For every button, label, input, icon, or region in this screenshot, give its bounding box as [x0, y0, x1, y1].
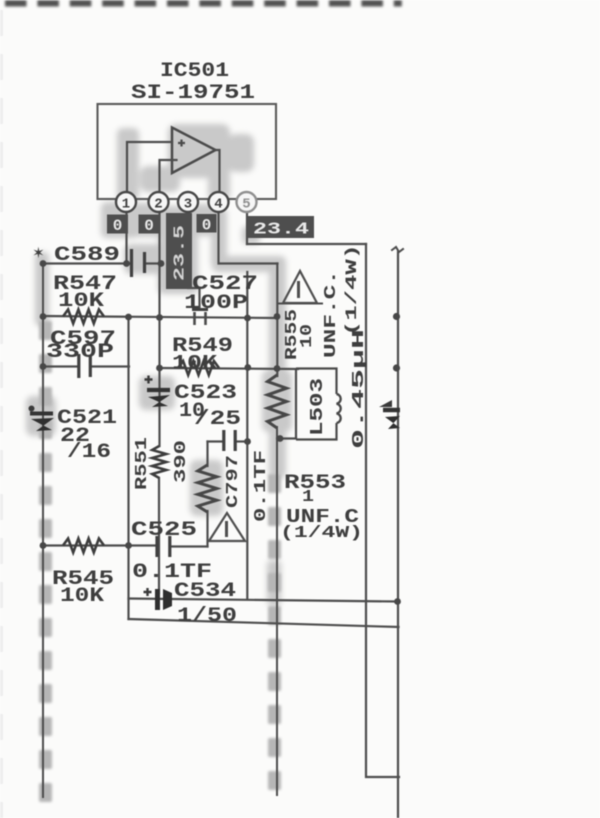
- capacitor C534 1/50 electrolytic: [144, 588, 152, 596]
- wire pin1 down: [125, 212, 127, 263]
- svg-text:10K: 10K: [172, 353, 217, 376]
- pin 1 of IC501: [116, 192, 136, 212]
- capacitor C589: [132, 249, 145, 277]
- junction node pin1 tap: [123, 260, 130, 267]
- svg-text:3: 3: [184, 197, 192, 213]
- rail node-B horizontal right part: [160, 368, 299, 369]
- svg-text:C525: C525: [131, 519, 197, 542]
- junction node rail-A x247: [244, 315, 251, 322]
- resistor R553 1: [198, 465, 217, 512]
- tick top of far right rail: [392, 247, 403, 252]
- capacitor electrolytic on far right rail: [379, 400, 392, 407]
- voltage box 0 pin4: [197, 214, 217, 233]
- shield dashed boundary right: [268, 474, 281, 790]
- junction node rail-B right: [274, 365, 281, 372]
- junction node rail-B x159: [156, 365, 163, 372]
- top border dashed line: [5, 0, 402, 7]
- junction node y546 x128: [125, 542, 132, 549]
- IC501 outline box: [98, 104, 277, 199]
- svg-text:1/50: 1/50: [177, 605, 237, 628]
- wire pin3 down: [188, 212, 200, 309]
- svg-text:(1/4W): (1/4W): [280, 524, 363, 543]
- svg-text:390: 390: [172, 440, 191, 483]
- svg-text:0.1TF: 0.1TF: [252, 450, 271, 522]
- svg-text:C797: C797: [224, 455, 243, 508]
- wire node column x277: [276, 264, 278, 377]
- wire bottom horizontal y625: [129, 619, 399, 627]
- resistor R545 10K: [63, 539, 104, 553]
- wire pin4 staircase: [219, 212, 278, 264]
- svg-text:4: 4: [214, 197, 222, 213]
- svg-text:R551: R551: [133, 437, 152, 490]
- wire pin5 down behind box: [246, 212, 248, 244]
- svg-text:/16: /16: [67, 441, 111, 464]
- junction node y600 right end: [394, 598, 401, 605]
- svg-text:0: 0: [202, 217, 212, 235]
- junction node rail-A right: [274, 313, 281, 320]
- pin 4 of IC501: [209, 192, 229, 212]
- svg-text:1: 1: [122, 197, 130, 213]
- wire far right rail: [397, 252, 399, 818]
- wire 23.4 feed to right rail: [247, 243, 366, 245]
- voltage box 0 pin2: [139, 215, 160, 234]
- svg-text:0: 0: [113, 217, 123, 235]
- junction node rail-B left: [40, 363, 47, 370]
- junction node rail-A x128: [125, 314, 132, 321]
- wire R545/C525 horizontal y546: [43, 544, 155, 546]
- svg-text:2: 2: [154, 197, 162, 213]
- svg-text:10K: 10K: [60, 585, 104, 608]
- junction node rail-A x159: [156, 314, 163, 321]
- svg-text:R553: R553: [284, 472, 346, 495]
- pin 3 of IC501: [178, 192, 198, 212]
- wire C589 horizontal: [43, 262, 130, 264]
- op-amp U1 (IC501 internal amplifier): [172, 128, 216, 174]
- svg-text:0: 0: [144, 217, 154, 235]
- wire bracket x128.5 vertical: [127, 317, 129, 619]
- wire pin2 down long vertical: [158, 212, 160, 446]
- wire pin2 to op-amp input: [160, 160, 177, 192]
- svg-text:SI-19751: SI-19751: [131, 82, 255, 105]
- rail node-B horizontal left part with C597: [43, 365, 77, 367]
- svg-text:10K: 10K: [58, 290, 104, 313]
- safety triangle mark 1 lower: [209, 513, 245, 541]
- junction node rail-A left: [40, 313, 47, 320]
- svg-text:1: 1: [302, 488, 314, 507]
- svg-text:100P: 100P: [184, 292, 248, 315]
- voltage box 23.5 pin3: [166, 213, 192, 289]
- capacitor C525 0.1TF: [157, 536, 170, 557]
- svg-text:/25: /25: [194, 408, 241, 431]
- safety triangle mark 1 upper: [283, 271, 317, 303]
- svg-text:330P: 330P: [46, 341, 114, 364]
- svg-text:✶: ✶: [33, 244, 44, 264]
- pin 5 of IC501: [237, 192, 257, 212]
- resistor R547 10K: [63, 310, 104, 324]
- svg-text:IC501: IC501: [160, 60, 229, 83]
- highlight marker blobs: [26, 124, 292, 606]
- capacitor C797 0.1TF: [224, 430, 235, 451]
- resistor R549 10K: [178, 361, 219, 375]
- rail node-A horizontal y317: [43, 316, 277, 318]
- junction node C589 right: [158, 260, 165, 267]
- svg-text:23.4: 23.4: [253, 221, 309, 240]
- junction node L503 bottom: [277, 435, 284, 442]
- page edge dashes: [0, 10, 3, 818]
- junction node C589 left: [40, 260, 47, 267]
- junction node rail-B x247: [244, 364, 251, 371]
- junction ticks on far right rail: [393, 313, 400, 320]
- wire pin1 to op-amp input: [127, 142, 172, 192]
- wire C534 horizontal y600: [129, 599, 398, 602]
- svg-text:23.5: 23.5: [173, 225, 189, 281]
- capacitor C523 10/25 electrolytic: [145, 376, 153, 384]
- voltage box 23.4 pin5 net: [248, 216, 314, 238]
- wire x247.5 vertical: [246, 272, 248, 599]
- resistor R551 390: [152, 446, 166, 478]
- capacitor C521 22/16 electrolytic: [29, 406, 35, 412]
- resistor R555 10: [268, 375, 287, 428]
- wire C797 horizontal: [208, 440, 223, 442]
- inductor L503 0.45uH: [296, 369, 337, 440]
- junction node C797 right: [244, 438, 251, 445]
- svg-text:10: 10: [298, 324, 317, 348]
- wire left vertical x43: [42, 264, 44, 798]
- capacitor C527 100P: [192, 308, 208, 311]
- junction node y546 left: [40, 542, 47, 549]
- wire L503 bottom connection: [277, 437, 296, 439]
- wire right rail down and step: [366, 244, 399, 777]
- capacitor C597 330P: [79, 354, 91, 378]
- wire R553 column: [206, 511, 208, 547]
- svg-text:L503: L503: [308, 378, 328, 436]
- voltage box 0 pin1: [107, 215, 128, 234]
- svg-text:C534: C534: [174, 580, 236, 603]
- wire op-amp output to pin 4: [215, 150, 220, 192]
- pin 2 of IC501: [149, 192, 169, 212]
- svg-text:C589: C589: [54, 244, 120, 267]
- svg-text:5: 5: [242, 197, 250, 213]
- shield dashed boundary left: [39, 321, 52, 802]
- svg-text:(1/4W): (1/4W): [343, 244, 361, 336]
- svg-text:0.45µH: 0.45µH: [350, 329, 369, 449]
- svg-text:UNF.C.: UNF.C.: [322, 270, 341, 358]
